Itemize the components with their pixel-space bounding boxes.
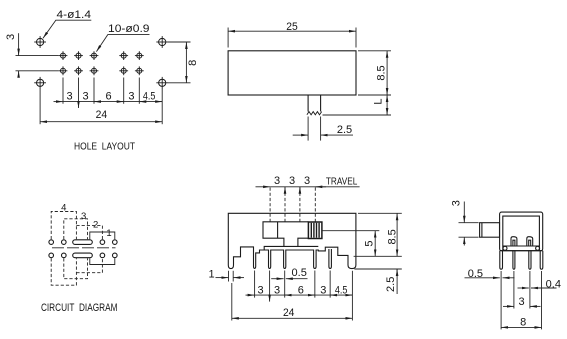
dim 25 (228, 21, 356, 33)
pin hole row2 col3 (90, 66, 99, 75)
leg B pin (513, 251, 515, 270)
dim 0.5 post width (465, 268, 515, 280)
svg-text:4.5: 4.5 (143, 91, 156, 103)
slider body (263, 222, 308, 247)
dim 8 overall (501, 317, 541, 329)
pin hole row2 col2 (74, 66, 83, 75)
base plate (264, 246, 318, 250)
svg-text:3: 3 (128, 91, 134, 103)
svg-text:3: 3 (450, 200, 462, 206)
label 10-dia0.9 (96, 23, 149, 51)
pin hole row2 col5 (135, 66, 144, 75)
terminal 2' row1 (62, 240, 67, 245)
dim 0.4 pin width (518, 278, 561, 290)
terminal 4' row2 (100, 253, 105, 258)
svg-text:10-ø0.9: 10-ø0.9 (108, 23, 150, 35)
svg-text:4.5: 4.5 (335, 285, 348, 297)
terminal 1' row2 (49, 253, 54, 258)
svg-text:3: 3 (83, 91, 89, 103)
terminal 1' row1 (49, 240, 54, 245)
svg-text:6: 6 (105, 91, 111, 103)
wiper contact row2 (73, 253, 93, 258)
dim 3 knob thickness (450, 200, 464, 245)
wire bracket 1 solid (90, 232, 115, 239)
travel position dashed line 1 (269, 188, 271, 222)
dim 3 row spacing (5, 33, 19, 77)
dim 24 front (232, 307, 353, 319)
travel position dashed line 3 (299, 188, 301, 222)
svg-text:4-ø1.4: 4-ø1.4 (57, 9, 92, 21)
svg-text:3: 3 (274, 175, 280, 187)
svg-text:3: 3 (320, 285, 326, 297)
svg-text:8: 8 (520, 317, 526, 329)
svg-text:8: 8 (187, 60, 199, 66)
terminal 4' row1 (100, 240, 105, 245)
pin 5 front (329, 249, 332, 269)
svg-text:3: 3 (81, 211, 86, 222)
body outer wall (500, 212, 543, 251)
svg-text:1: 1 (208, 268, 214, 280)
chain dim extension lines below pins (232, 271, 353, 321)
svg-text:L: L (373, 98, 385, 104)
wire bottom bracket dashed oval-4 (76, 258, 102, 272)
actuator knob side (480, 223, 500, 238)
leg extension lines (501, 271, 541, 329)
dim 3 knob extension lines (459, 223, 479, 238)
terminal pin side view (308, 95, 321, 112)
label 4-dia1.4 (43, 9, 91, 38)
dim 3 pin spacing (503, 296, 541, 308)
row1 extension line (16, 55, 59, 57)
leg D right post (540, 251, 543, 270)
svg-text:0.4: 0.4 (546, 278, 561, 290)
dim 24 (40, 109, 162, 122)
pin hole row2 col1 (59, 66, 68, 75)
pin hole row1 col5 (135, 51, 144, 60)
slider cap divider (277, 222, 279, 238)
contact slot right (527, 237, 533, 246)
travel position dashed line 4 (314, 188, 316, 222)
chain dim line 3 3 6 3 4.5 (246, 295, 353, 302)
pin hole row1 col3 (90, 51, 99, 60)
wiper contact row1 (73, 240, 93, 245)
terminal 2' row2 (62, 253, 67, 258)
TRAVEL label (315, 177, 359, 188)
contact slot right pin (529, 240, 531, 246)
wire bracket 2 dashed (76, 226, 102, 240)
rivet left (503, 246, 507, 250)
svg-text:8.5: 8.5 (386, 229, 398, 244)
dim 8 (186, 42, 199, 83)
pin hole row1 col2 (74, 51, 83, 60)
terminal 5' row1 (113, 240, 118, 245)
right side extension lines (323, 213, 402, 269)
dim 8.5 front (386, 213, 398, 256)
svg-text:CIRCUIT DIAGRAM: CIRCUIT DIAGRAM (41, 302, 118, 314)
svg-text:3: 3 (67, 91, 73, 103)
pin hole row1 col1 (59, 51, 68, 60)
pin break zigzag (307, 112, 322, 115)
svg-text:24: 24 (283, 307, 295, 319)
rivet right (536, 246, 540, 250)
svg-text:3: 3 (258, 285, 264, 297)
contact slot left (511, 237, 517, 246)
svg-text:24: 24 (96, 109, 108, 121)
dim 8.5 extension top (358, 50, 391, 52)
pin hole row1 col4 (119, 51, 128, 60)
dim 8.5 side (375, 51, 387, 95)
mounting hole extension lines below (40, 89, 162, 125)
contact slot left pin (513, 240, 515, 246)
svg-text:HOLE LAYOUT: HOLE LAYOUT (74, 142, 135, 153)
wire bottom bracket dashed 1-oval (51, 258, 76, 285)
svg-text:0.5: 0.5 (292, 267, 307, 279)
svg-text:3: 3 (274, 285, 280, 297)
dim L (373, 95, 388, 115)
bottom plate line (500, 250, 543, 252)
svg-text:3: 3 (5, 34, 17, 40)
pin hole row2 col4 (119, 66, 128, 75)
switch body outline with legs and pins (228, 213, 356, 268)
row2 extension line (16, 70, 59, 72)
terminal 5' row2 (113, 253, 118, 258)
leg C pin (529, 251, 531, 270)
wire bottom bracket solid oval-5 (90, 258, 115, 264)
svg-text:1: 1 (106, 228, 111, 239)
svg-text:2.5: 2.5 (385, 277, 397, 292)
body inner wall (503, 216, 540, 251)
dim 2.5 pin protrusion (385, 269, 397, 294)
mounting hole top-left (34, 36, 46, 48)
dim 8 extension bottom (168, 82, 191, 84)
slider knob hatched (308, 222, 322, 239)
knob cap line (481, 223, 483, 238)
svg-text:6: 6 (298, 285, 304, 297)
dim 1 left post width (208, 268, 244, 281)
dim 25 extension left (227, 28, 229, 48)
dim 5 knob to seating (363, 231, 375, 257)
dim L extension bottom (323, 114, 392, 116)
dim 25 extension right (355, 28, 357, 48)
svg-text:8.5: 8.5 (375, 65, 387, 80)
dim 2.5 pin width (293, 124, 353, 136)
chain dim line 3 3 6 3 4.5 (54, 102, 163, 108)
pole divider line (52, 247, 116, 249)
dim 8 extension top (168, 41, 191, 43)
svg-text:3: 3 (289, 175, 295, 187)
svg-text:25: 25 (286, 21, 298, 33)
mounting hole bottom-left (34, 77, 46, 89)
inner bottom line (503, 245, 540, 247)
svg-text:3: 3 (304, 175, 310, 187)
svg-text:3: 3 (518, 296, 524, 308)
mounting hole top-right (156, 36, 168, 48)
column extension lines below holes (63, 78, 139, 104)
travel position dashed line 2 (284, 188, 286, 222)
dim 8.5 extension bottom (358, 94, 391, 96)
svg-text:2: 2 (93, 220, 98, 231)
wire bracket 3 dashed (64, 219, 88, 239)
leg A left post (500, 251, 503, 270)
dim 0.5 pin width (271, 267, 307, 279)
svg-text:0.5: 0.5 (468, 268, 483, 280)
wire bottom bracket dashed 2-oval (64, 258, 88, 278)
travel dim line (256, 187, 327, 193)
switch body side view (228, 51, 356, 95)
svg-text:2.5: 2.5 (337, 124, 352, 136)
svg-text:5: 5 (363, 240, 375, 246)
svg-text:TRAVEL: TRAVEL (326, 177, 358, 188)
pin extension lines (308, 117, 321, 141)
mounting hole bottom-right (156, 77, 168, 89)
wire bracket 4 dashed (51, 212, 76, 240)
